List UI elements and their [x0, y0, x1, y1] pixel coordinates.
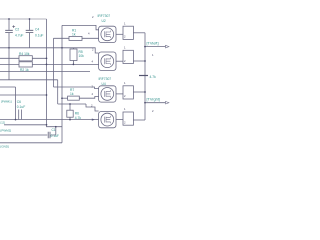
- svg-text:4.7k: 4.7k: [75, 116, 82, 120]
- svg-text:2: 2: [124, 94, 126, 98]
- svg-text:2: 2: [152, 109, 154, 113]
- svg-text:U4: U4: [102, 82, 106, 86]
- svg-text:R6: R6: [75, 111, 79, 115]
- svg-text:[PWM2]: [PWM2]: [1, 129, 12, 133]
- svg-text:2: 2: [124, 120, 126, 124]
- svg-text:1k: 1k: [70, 92, 74, 96]
- svg-text:4: 4: [92, 92, 94, 96]
- svg-text:4.7uF: 4.7uF: [15, 33, 23, 37]
- svg-text:4: 4: [88, 32, 90, 36]
- svg-text:0.1uF: 0.1uF: [17, 105, 25, 109]
- svg-text:2: 2: [92, 84, 94, 88]
- svg-text:2: 2: [124, 59, 126, 63]
- svg-text:1: 1: [124, 81, 126, 85]
- svg-text:0.1uF: 0.1uF: [51, 134, 59, 138]
- svg-text:C1: C1: [52, 128, 56, 132]
- svg-text:[GND]: [GND]: [1, 145, 10, 149]
- svg-text:4: 4: [92, 60, 94, 64]
- svg-text:1: 1: [124, 107, 126, 111]
- svg-text:2: 2: [92, 48, 94, 52]
- svg-text:U2: U2: [102, 19, 106, 23]
- svg-text:[12]: [12]: [1, 121, 6, 125]
- svg-text:10k: 10k: [79, 54, 85, 58]
- svg-text:IRF7307: IRF7307: [98, 14, 111, 18]
- svg-text:[TVrght]: [TVrght]: [147, 98, 160, 102]
- svg-text:1: 1: [124, 21, 126, 25]
- svg-text:R2 1k: R2 1k: [20, 68, 29, 72]
- svg-text:C4: C4: [35, 27, 39, 31]
- svg-text:1: 1: [152, 53, 154, 57]
- svg-text:4.7k: 4.7k: [150, 75, 157, 79]
- svg-text:1: 1: [124, 46, 126, 50]
- svg-text:0.1uF: 0.1uF: [35, 33, 43, 37]
- svg-text:R4 10k: R4 10k: [19, 52, 30, 56]
- svg-text:1k: 1k: [72, 32, 76, 36]
- svg-text:IRF7307: IRF7307: [99, 77, 112, 81]
- svg-text:C6: C6: [17, 100, 21, 104]
- svg-text:2: 2: [92, 15, 94, 19]
- svg-text:[TVleft]: [TVleft]: [147, 42, 159, 46]
- svg-text:[PWM1]: [PWM1]: [1, 100, 12, 104]
- svg-text:2: 2: [124, 35, 126, 39]
- svg-text:C2: C2: [15, 27, 19, 31]
